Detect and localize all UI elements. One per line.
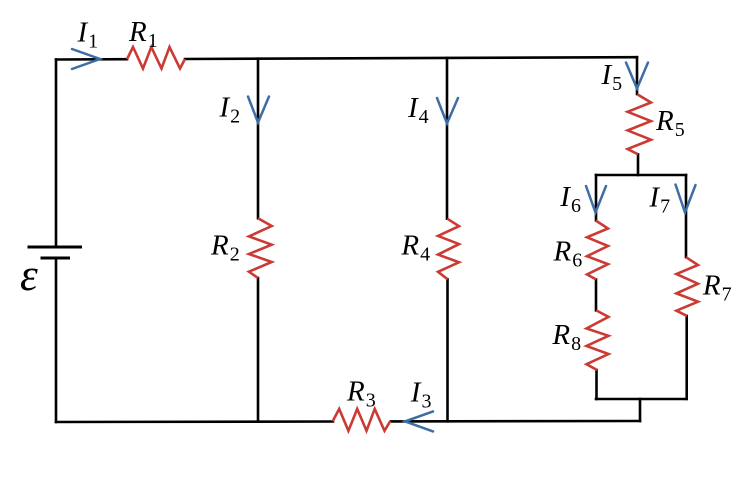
svg-text:I6: I6 xyxy=(559,181,581,217)
wire split bottom bar xyxy=(596,398,686,401)
wire top rail right of R1 xyxy=(185,57,637,59)
wire I6 branch upper xyxy=(595,175,598,221)
current arrow I4 xyxy=(437,98,458,124)
svg-text:I2: I2 xyxy=(219,92,241,128)
wire I7 branch upper xyxy=(685,175,688,257)
svg-text:I1: I1 xyxy=(77,17,99,53)
svg-text:R6: R6 xyxy=(553,236,583,272)
svg-text:ε: ε xyxy=(20,250,38,300)
wire left side upper (battery top lead) xyxy=(55,60,58,248)
resistor R8 xyxy=(587,310,609,370)
wire R2 branch upper xyxy=(257,59,260,219)
svg-text:R7: R7 xyxy=(702,269,732,305)
wire right branch top (to R5) xyxy=(636,57,639,94)
svg-text:I5: I5 xyxy=(601,59,623,95)
current arrow I3 xyxy=(405,411,433,431)
svg-text:R5: R5 xyxy=(655,105,685,141)
resistor R5 xyxy=(628,94,651,154)
wire R5 to split bar xyxy=(637,154,640,175)
wire split top bar xyxy=(596,174,686,177)
wire I7 branch lower xyxy=(685,316,688,399)
current arrow I5 xyxy=(626,63,648,89)
svg-text:R2: R2 xyxy=(210,229,240,265)
current arrow I6 xyxy=(586,186,606,213)
wire R2 branch lower xyxy=(257,278,260,422)
svg-text:I3: I3 xyxy=(410,377,432,413)
current arrow I2 xyxy=(248,97,269,123)
svg-text:R4: R4 xyxy=(400,230,430,266)
resistor R3 xyxy=(333,409,391,431)
wire I6 branch lower xyxy=(595,370,598,399)
battery plate long (positive) xyxy=(28,246,83,249)
wire R4 branch upper xyxy=(446,58,449,219)
battery plate short (negative) xyxy=(41,257,71,260)
resistor R1 xyxy=(127,47,185,69)
resistor R4 xyxy=(438,219,459,280)
svg-text:R8: R8 xyxy=(551,319,581,355)
resistor R6 xyxy=(587,221,608,280)
svg-text:R1: R1 xyxy=(128,16,158,52)
wire bottom rail left of R3 xyxy=(56,420,333,423)
wire top rail left of R1 xyxy=(56,58,127,61)
wire between R6 and R8 xyxy=(595,280,598,311)
svg-text:R3: R3 xyxy=(346,376,376,412)
current arrow I7 xyxy=(676,185,696,213)
wire R4 branch lower xyxy=(446,279,449,421)
current arrow I1 xyxy=(72,49,100,69)
wire bottom-right riser xyxy=(639,399,642,421)
wire bottom rail right of R3 xyxy=(391,420,640,423)
svg-text:I4: I4 xyxy=(407,92,429,128)
resistor R2 xyxy=(249,218,272,278)
resistor R7 xyxy=(676,257,698,316)
svg-text:I7: I7 xyxy=(648,181,670,217)
wire left side lower (battery bottom lead) xyxy=(55,258,58,422)
